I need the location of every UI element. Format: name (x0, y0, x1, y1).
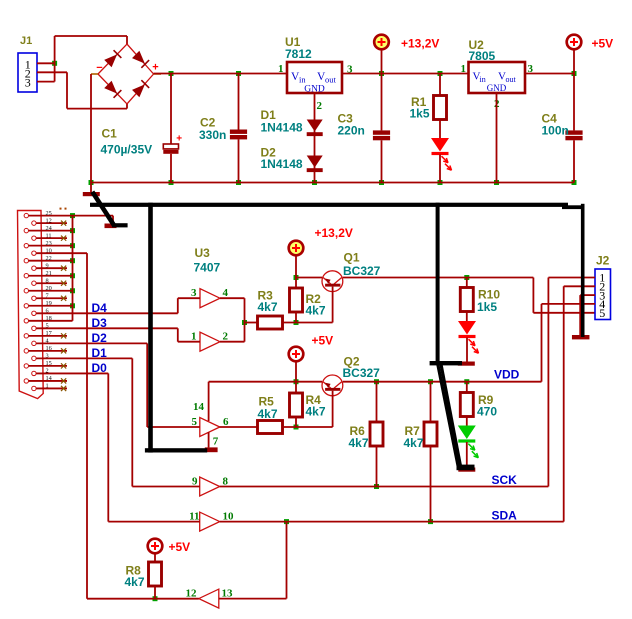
svg-text:3: 3 (46, 353, 49, 360)
svg-text:in: in (480, 75, 486, 84)
svg-text:1k5: 1k5 (477, 300, 497, 314)
svg-text:15: 15 (46, 360, 52, 367)
svg-text:Q1: Q1 (344, 251, 360, 265)
svg-text:VDD: VDD (494, 368, 520, 382)
svg-text:14: 14 (46, 375, 53, 382)
svg-text:+13,2V: +13,2V (401, 37, 439, 51)
svg-text:3: 3 (25, 76, 31, 90)
svg-text:−: − (96, 62, 102, 74)
svg-text:4k7: 4k7 (306, 405, 326, 419)
svg-text:2: 2 (46, 368, 49, 375)
svg-text:D0: D0 (92, 361, 108, 375)
svg-text:21: 21 (46, 270, 52, 277)
svg-text:19: 19 (46, 300, 52, 307)
svg-text:+5V: +5V (312, 334, 334, 348)
svg-text:7: 7 (213, 436, 219, 448)
svg-text:330n: 330n (199, 128, 226, 142)
svg-text:in: in (299, 75, 306, 85)
svg-text:470: 470 (477, 405, 497, 419)
svg-text:SCK: SCK (492, 473, 518, 487)
svg-text:+: + (176, 134, 182, 145)
svg-text:out: out (325, 75, 337, 85)
svg-text:+13,2V: +13,2V (315, 226, 353, 240)
svg-text:5: 5 (46, 323, 49, 330)
svg-text:D2: D2 (92, 331, 108, 345)
svg-text:14: 14 (193, 401, 205, 413)
svg-text:8: 8 (46, 277, 49, 284)
svg-text:D1: D1 (92, 346, 108, 360)
svg-text:out: out (506, 75, 517, 84)
svg-text:11: 11 (46, 232, 52, 239)
svg-text:7805: 7805 (469, 49, 496, 63)
svg-text:17: 17 (46, 330, 52, 337)
svg-text:1N4148: 1N4148 (261, 157, 303, 171)
svg-text:4k7: 4k7 (404, 436, 424, 450)
svg-text:1: 1 (461, 63, 467, 75)
svg-text:+5V: +5V (169, 540, 191, 554)
svg-text:7: 7 (46, 292, 49, 299)
svg-text:U3: U3 (195, 246, 211, 260)
svg-text:3: 3 (528, 63, 534, 75)
svg-text:4k7: 4k7 (125, 575, 145, 589)
svg-text:16: 16 (46, 345, 52, 352)
svg-text:1N4148: 1N4148 (261, 121, 303, 135)
svg-text:23: 23 (46, 240, 52, 247)
svg-text:2: 2 (317, 100, 323, 112)
svg-text:7407: 7407 (194, 261, 221, 275)
svg-text:BC327: BC327 (343, 366, 381, 380)
svg-text:18: 18 (46, 315, 52, 322)
svg-text:220n: 220n (338, 124, 365, 138)
svg-text:C1: C1 (102, 127, 118, 141)
svg-text:D3: D3 (92, 316, 108, 330)
svg-text:BC327: BC327 (343, 264, 381, 278)
svg-text:25: 25 (46, 210, 52, 217)
svg-text:22: 22 (46, 255, 52, 262)
svg-text:1k5: 1k5 (410, 107, 430, 121)
svg-text:J1: J1 (20, 35, 32, 47)
svg-text:1: 1 (278, 63, 284, 75)
svg-text:1: 1 (46, 383, 49, 390)
svg-text:24: 24 (46, 225, 53, 232)
svg-text:+: + (152, 61, 158, 73)
svg-text:J2: J2 (596, 254, 610, 268)
svg-text:4k7: 4k7 (306, 304, 326, 318)
svg-text:4k7: 4k7 (258, 300, 278, 314)
svg-text:9: 9 (46, 262, 49, 269)
svg-text:4k7: 4k7 (349, 436, 369, 450)
svg-text:100n: 100n (542, 124, 569, 138)
svg-text:20: 20 (46, 285, 52, 292)
svg-text:SDA: SDA (492, 509, 518, 523)
svg-text:6: 6 (46, 307, 49, 314)
svg-text:10: 10 (46, 247, 52, 254)
svg-text:3: 3 (347, 64, 353, 76)
svg-text:7812: 7812 (285, 47, 312, 61)
svg-text:+5V: +5V (592, 37, 614, 51)
svg-text:5: 5 (599, 306, 605, 320)
svg-text:D4: D4 (92, 301, 108, 315)
svg-text:GND: GND (487, 83, 507, 93)
svg-text:12: 12 (46, 217, 52, 224)
svg-text:470µ/35V: 470µ/35V (101, 143, 153, 157)
svg-text:4k7: 4k7 (258, 407, 278, 421)
